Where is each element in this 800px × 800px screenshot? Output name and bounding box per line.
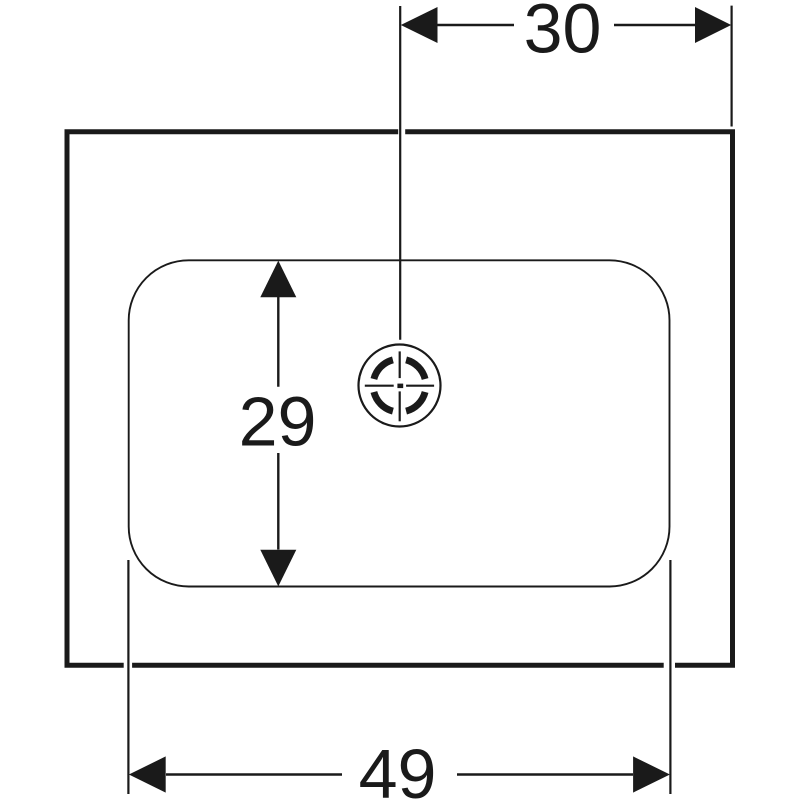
dim 49: left extension line bbox=[127, 560, 129, 794]
dim 30: left arrow bbox=[401, 7, 438, 43]
svg-text:30: 30 bbox=[524, 0, 602, 68]
drain thick broken ring (4 arcs) bbox=[374, 360, 425, 411]
dim 29: bottom arrow bbox=[260, 550, 296, 587]
dim 30: right arrow bbox=[695, 7, 731, 43]
dim 49: right arrow bbox=[633, 756, 670, 792]
svg-text:29: 29 bbox=[239, 383, 317, 461]
dim 30: left extension line (drain centerline) bbox=[399, 6, 401, 340]
dim 49: dimension line segments bbox=[166, 773, 342, 775]
drain center dash bbox=[397, 384, 403, 389]
dim 49: left arrow bbox=[129, 756, 166, 792]
bowl rounded rectangle (thin outline) bbox=[129, 260, 670, 586]
dim 30: right extension line bbox=[730, 6, 732, 127]
drain outer circle bbox=[359, 345, 441, 427]
dim 29: top arrow bbox=[260, 261, 296, 298]
basin outer rectangle (thick outline, with gaps at extension-line crossings) bbox=[67, 132, 733, 665]
svg-text:49: 49 bbox=[359, 735, 437, 800]
drain crosshair (centerline style) bbox=[365, 351, 434, 421]
dim 30: dimension line segments bbox=[437, 24, 514, 26]
dim 29: dimension line segments bbox=[277, 297, 279, 387]
dim 49: right extension line bbox=[669, 560, 671, 794]
